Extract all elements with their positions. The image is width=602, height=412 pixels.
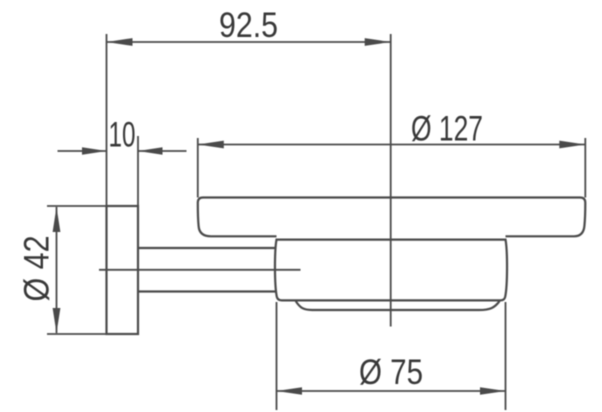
svg-text:Ø 42: Ø 42 xyxy=(17,236,57,302)
extension line plate top xyxy=(47,205,107,207)
extension line dish right xyxy=(584,138,586,198)
cup inner bottom line xyxy=(296,301,500,310)
arrow D75 right xyxy=(480,387,506,395)
svg-text:Ø 127: Ø 127 xyxy=(411,109,483,149)
cup outline xyxy=(275,240,507,301)
arm top edge xyxy=(138,247,277,249)
arm bottom edge xyxy=(138,290,277,292)
extension line dish left xyxy=(197,138,199,198)
extension line left x106.5 xyxy=(106,34,108,206)
svg-text:10: 10 xyxy=(109,115,136,155)
svg-text:92.5: 92.5 xyxy=(219,5,278,45)
dimension line 92.5 xyxy=(107,41,391,43)
arrow 92.5 left xyxy=(107,38,133,46)
arrow D127 left xyxy=(198,141,224,149)
dimension line D127 xyxy=(198,144,586,146)
arrow 10 right xyxy=(138,147,163,155)
wall plate xyxy=(107,206,139,334)
extension line cup right xyxy=(505,302,507,410)
arrow D127 right xyxy=(559,141,585,149)
extension line cup left xyxy=(276,302,278,410)
arrow D42 top xyxy=(53,207,61,232)
arrow 10 left xyxy=(82,147,107,155)
vertical center line xyxy=(390,34,392,327)
dimension line D42 xyxy=(56,207,58,333)
extension line plate right x138 xyxy=(137,136,139,206)
dimension line 10 right tail xyxy=(138,150,187,152)
svg-text:Ø 75: Ø 75 xyxy=(359,352,423,392)
extension line plate bottom xyxy=(47,333,107,335)
horizontal center line xyxy=(99,269,301,271)
dish outline xyxy=(198,198,586,237)
arrow D42 bottom xyxy=(53,308,61,333)
arrow 92.5 right xyxy=(365,38,391,46)
arrow D75 left xyxy=(277,387,303,395)
dimension line D75 xyxy=(277,390,506,392)
dimension line 10 left tail xyxy=(58,150,107,152)
